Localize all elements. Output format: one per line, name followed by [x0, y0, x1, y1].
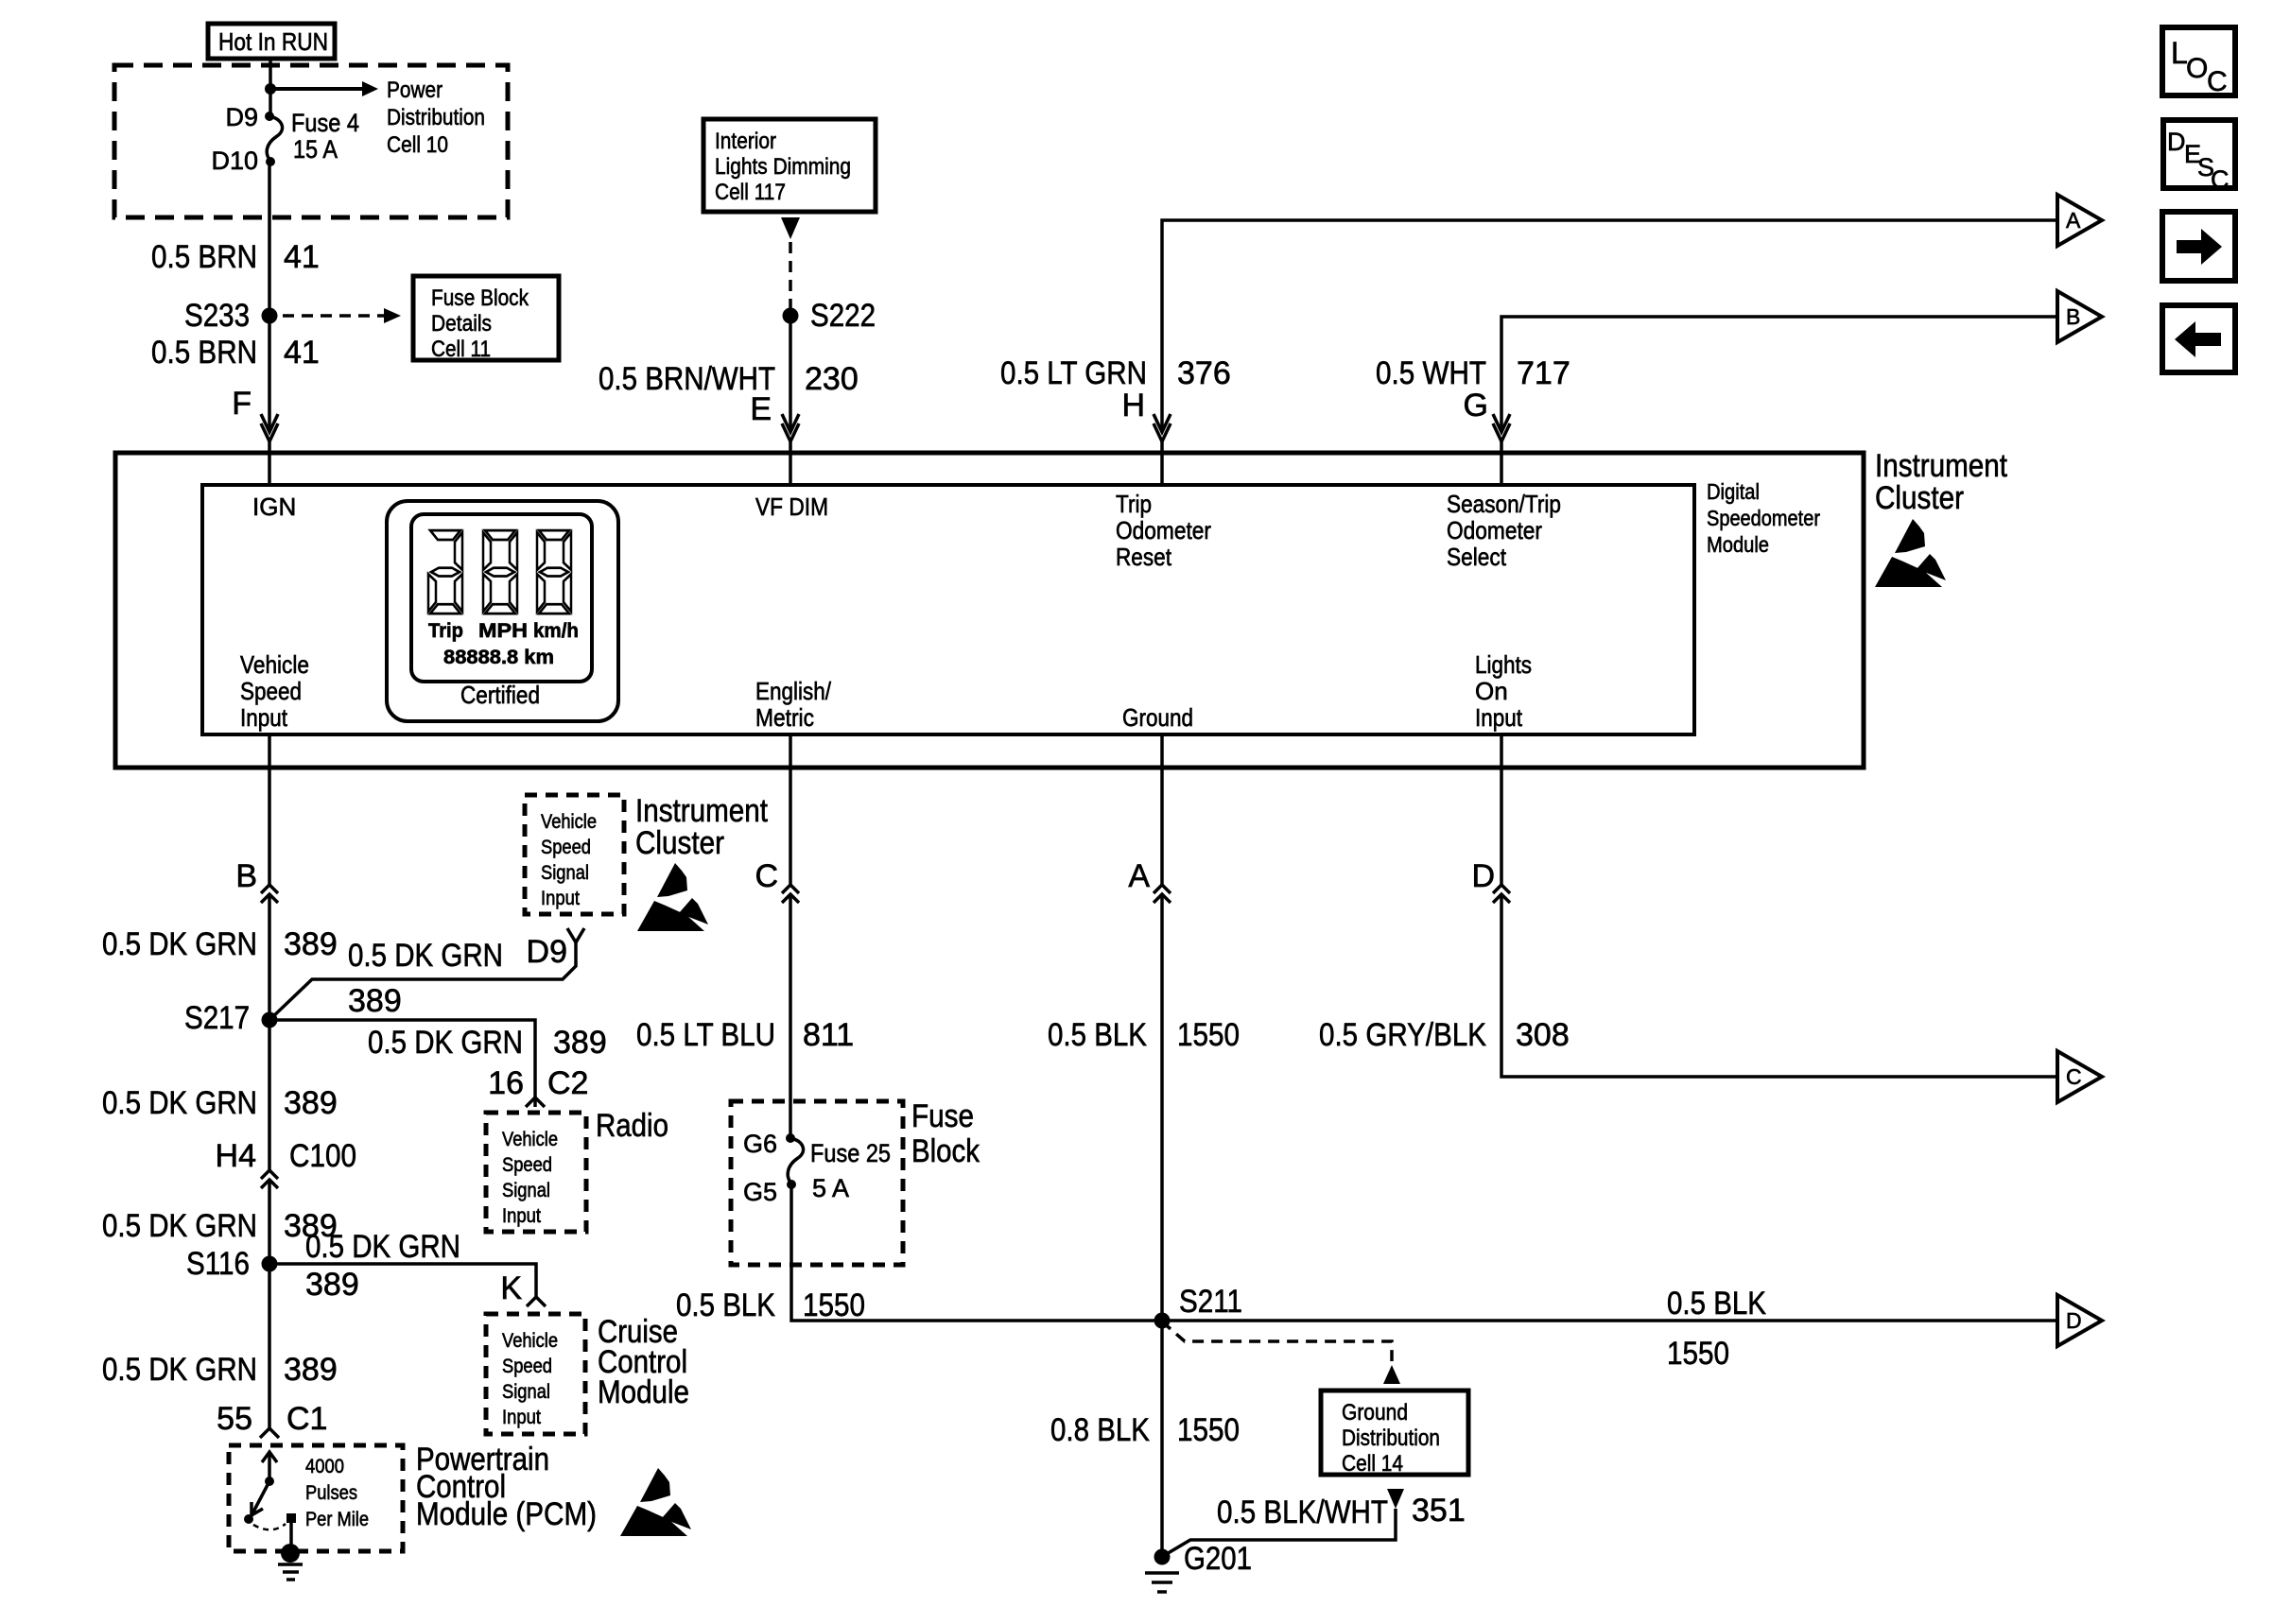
wire D10 to S233 [268, 162, 271, 316]
svg-text:Speed: Speed [541, 837, 591, 858]
svg-text:55: 55 [217, 1401, 252, 1437]
wire C100 to S116 [268, 1180, 271, 1264]
svg-text:E: E [750, 391, 772, 427]
svg-text:Reset: Reset [1116, 543, 1172, 571]
svg-text:Speedometer: Speedometer [1707, 506, 1820, 530]
fuse F25 terminal G6 [786, 1133, 795, 1143]
svg-text:D: D [2167, 128, 2186, 156]
PCM speed signal arrow [268, 1453, 271, 1481]
svg-text:0.5 DK GRN: 0.5 DK GRN [102, 1085, 257, 1121]
wire S211 to G201 [1160, 1321, 1164, 1557]
wire S217 to C100 [268, 1020, 271, 1170]
svg-text:0.5 DK GRN: 0.5 DK GRN [102, 926, 257, 962]
svg-text:H4: H4 [216, 1138, 256, 1174]
legend DESC box [2163, 120, 2235, 188]
wire from cluster pin English/Metric [789, 734, 792, 885]
svg-text:0.5 DK GRN: 0.5 DK GRN [348, 938, 503, 974]
svg-text:389: 389 [305, 1267, 359, 1303]
svg-text:S116: S116 [186, 1246, 250, 1282]
svg-text:km/h: km/h [533, 620, 579, 642]
off-page connector B [2057, 291, 2102, 342]
svg-text:0.5 BLK: 0.5 BLK [1048, 1017, 1147, 1053]
ESD symbol (dashed instrument cluster) [637, 863, 708, 931]
svg-text:Vehicle: Vehicle [240, 650, 309, 679]
fuse block (power distribution) dashed box [114, 65, 508, 217]
svg-text:Module: Module [598, 1374, 689, 1410]
splice S211 [1154, 1313, 1171, 1329]
wire to off-page A [1162, 220, 2057, 432]
svg-text:K: K [500, 1270, 522, 1306]
wire A to S211 [1160, 894, 1164, 1321]
svg-text:Cell 11: Cell 11 [431, 337, 491, 362]
svg-text:Cell 117: Cell 117 [715, 180, 786, 205]
svg-text:0.5 DK GRN: 0.5 DK GRN [102, 1352, 257, 1388]
svg-text:Signal: Signal [502, 1381, 550, 1403]
svg-text:0.5 BLK: 0.5 BLK [1667, 1286, 1766, 1322]
wire branch S217 to D9 [269, 942, 576, 1020]
wire G5 to S211 [791, 1184, 1162, 1321]
svg-text:Cell 14: Cell 14 [1342, 1451, 1403, 1477]
svg-text:0.5 GRY/BLK: 0.5 GRY/BLK [1319, 1017, 1486, 1053]
wire B to S217 [268, 894, 271, 1020]
svg-text:0.5 LT GRN: 0.5 LT GRN [1000, 355, 1147, 391]
wire S211 to off-page D [1162, 1319, 2057, 1322]
svg-text:811: 811 [803, 1017, 854, 1053]
svg-text:Input: Input [502, 1407, 541, 1428]
display digit 2 [483, 530, 517, 613]
splice S217 [262, 1012, 278, 1028]
digital speedometer module inner box [202, 485, 1694, 734]
svg-text:Select: Select [1447, 543, 1507, 571]
wire S222 to connector E [789, 316, 792, 432]
svg-text:389: 389 [284, 1085, 338, 1121]
svg-text:MPH: MPH [478, 620, 528, 642]
svg-text:Distribution: Distribution [387, 105, 485, 130]
svg-text:Module (PCM): Module (PCM) [416, 1496, 597, 1532]
svg-text:Digital: Digital [1707, 479, 1760, 504]
ESD symbol (PCM) [620, 1468, 691, 1536]
wire into cluster pin IGN [268, 441, 271, 485]
svg-text:Season/Trip: Season/Trip [1447, 490, 1561, 518]
svg-text:0.5 BRN/WHT: 0.5 BRN/WHT [599, 361, 775, 397]
wire branch S116 to cruise [269, 1264, 536, 1297]
svg-text:308: 308 [1516, 1017, 1570, 1053]
svg-text:Power: Power [387, 78, 442, 103]
svg-text:Input: Input [240, 703, 288, 732]
svg-text:389: 389 [553, 1025, 607, 1061]
svg-text:Vehicle: Vehicle [502, 1330, 558, 1352]
svg-text:0.5 DK GRN: 0.5 DK GRN [305, 1229, 460, 1265]
svg-text:1550: 1550 [1177, 1412, 1240, 1448]
svg-text:Input: Input [541, 888, 580, 909]
wire branch S217 to radio [269, 1020, 535, 1097]
wire S116 to PCM [268, 1264, 271, 1428]
svg-text:Cell 10: Cell 10 [387, 132, 448, 158]
svg-text:G6: G6 [743, 1130, 777, 1158]
wire to off-page B [1501, 317, 2057, 432]
wire from cluster pin Ground [1160, 734, 1164, 885]
svg-text:Cluster: Cluster [1875, 480, 1964, 516]
svg-text:Fuse: Fuse [911, 1098, 974, 1134]
svg-text:15 A: 15 A [293, 135, 338, 164]
display bezel [387, 501, 618, 721]
arrow from Ground Distribution [1387, 1489, 1404, 1509]
svg-text:Metric: Metric [755, 703, 814, 732]
svg-text:Lights Dimming: Lights Dimming [715, 154, 851, 180]
svg-text:389: 389 [284, 926, 338, 962]
svg-text:S211: S211 [1179, 1284, 1242, 1320]
wire into cluster pin VF DIM [789, 441, 792, 485]
svg-text:Hot In RUN: Hot In RUN [218, 27, 328, 56]
fuse F25 terminal G5 [787, 1180, 796, 1189]
connector C2 pin 16 [526, 1097, 545, 1107]
junction in fuse block [265, 83, 276, 95]
svg-text:G: G [1464, 388, 1488, 423]
dashed arrow to Fuse Block Details [283, 314, 384, 318]
node Ground Distribution [1321, 1391, 1468, 1475]
svg-text:389: 389 [284, 1352, 338, 1388]
wire C to fuse block [789, 894, 792, 1138]
svg-text:D: D [2066, 1308, 2082, 1333]
fuse F4 terminal D9 [265, 112, 274, 121]
svg-text:0.5 DK GRN: 0.5 DK GRN [102, 1208, 257, 1244]
svg-text:C1: C1 [286, 1401, 327, 1437]
svg-text:0.5 BLK: 0.5 BLK [676, 1287, 775, 1323]
svg-text:H: H [1121, 388, 1145, 423]
svg-text:0.5 DK GRN: 0.5 DK GRN [368, 1025, 523, 1061]
svg-text:C: C [755, 858, 778, 894]
instrument cluster outer box [115, 453, 1864, 768]
splice S233 [262, 308, 278, 324]
connector G into cluster [1493, 414, 1510, 441]
svg-text:4000: 4000 [305, 1456, 344, 1477]
svg-text:Vehicle: Vehicle [502, 1129, 558, 1150]
svg-text:Lights: Lights [1475, 650, 1532, 679]
wire Hot In RUN to fuse block [269, 59, 272, 116]
svg-text:Speed: Speed [502, 1154, 552, 1176]
splice S116 [262, 1256, 278, 1272]
svg-text:0.5 BRN: 0.5 BRN [151, 335, 257, 371]
dashed wire to S222 [789, 242, 792, 308]
svg-text:1550: 1550 [803, 1287, 865, 1323]
ground (PCM internal) [281, 1544, 300, 1563]
svg-text:Distribution: Distribution [1342, 1425, 1440, 1451]
wire from cluster pin Vehicle Speed Input [268, 734, 271, 885]
svg-text:Pulses: Pulses [305, 1482, 357, 1504]
svg-text:Vehicle: Vehicle [541, 811, 597, 833]
legend back arrow box [2162, 305, 2235, 372]
svg-text:Trip: Trip [428, 620, 463, 642]
svg-text:Input: Input [502, 1205, 541, 1227]
off-page connector D [2057, 1295, 2102, 1346]
svg-text:C2: C2 [547, 1065, 588, 1101]
svg-text:41: 41 [284, 335, 320, 371]
svg-text:0.5 BLK/WHT: 0.5 BLK/WHT [1217, 1494, 1388, 1530]
wire from cluster pin Lights On Input [1500, 734, 1503, 885]
svg-text:A: A [1128, 858, 1150, 894]
node Fuse Block dashed box [731, 1101, 903, 1265]
legend forward arrow box [2162, 212, 2235, 281]
svg-text:A: A [2066, 208, 2081, 233]
ESD symbol (instrument cluster) [1875, 519, 1946, 587]
svg-text:Certified: Certified [460, 681, 540, 709]
wire into cluster pin Season/Trip Odometer Select [1500, 441, 1503, 485]
svg-text:Module: Module [1707, 532, 1769, 557]
svg-text:376: 376 [1177, 355, 1231, 391]
off-page connector C [2057, 1051, 2102, 1102]
ground G201 [1154, 1549, 1171, 1565]
svg-text:S233: S233 [184, 298, 250, 334]
wire arrow to Power Distribution [270, 87, 362, 91]
connector D out of cluster [1493, 885, 1510, 903]
svg-text:717: 717 [1517, 355, 1570, 391]
svg-text:5 A: 5 A [812, 1174, 849, 1202]
connector A out of cluster [1154, 885, 1171, 903]
connector F into cluster [261, 414, 278, 441]
connector D9 (instrument cluster) [567, 928, 584, 942]
svg-text:Cluster: Cluster [635, 825, 724, 861]
wire 351 to G201 [1165, 1509, 1396, 1555]
svg-text:On: On [1475, 677, 1508, 705]
svg-text:Signal: Signal [502, 1180, 550, 1201]
svg-text:Speed: Speed [240, 677, 302, 705]
svg-text:Fuse 4: Fuse 4 [291, 109, 359, 137]
svg-text:Ground: Ground [1342, 1400, 1408, 1425]
svg-text:S222: S222 [810, 298, 876, 334]
wire into cluster pin Trip Odometer Reset [1160, 441, 1164, 485]
node Vehicle Speed Signal Input (radio) [486, 1113, 586, 1232]
svg-text:C: C [2066, 1064, 2082, 1089]
svg-text:D10: D10 [211, 147, 258, 175]
svg-text:0.5 WHT: 0.5 WHT [1376, 355, 1486, 391]
svg-text:English/: English/ [755, 677, 832, 705]
svg-text:B: B [2066, 304, 2080, 329]
svg-text:S217: S217 [184, 1000, 250, 1036]
svg-text:O: O [2186, 53, 2208, 84]
dashed link S211 to Ground Distribution [1162, 1322, 1392, 1361]
wire to PCM ground [289, 1523, 293, 1545]
svg-text:Speed: Speed [502, 1356, 552, 1377]
svg-text:VF DIM: VF DIM [755, 492, 828, 521]
svg-text:Block: Block [911, 1133, 980, 1169]
fuse F4 terminal D10 [266, 157, 275, 166]
svg-text:Per Mile: Per Mile [305, 1509, 369, 1530]
node Vehicle Speed Signal Input (cruise) [486, 1314, 585, 1434]
node Interior Lights Dimming [703, 119, 876, 212]
PCM switch contact [253, 1524, 286, 1529]
svg-text:C100: C100 [289, 1138, 356, 1174]
svg-text:Odometer: Odometer [1116, 516, 1211, 544]
svg-text:351: 351 [1412, 1493, 1466, 1529]
svg-text:C: C [2207, 66, 2228, 97]
PCM switch wiper [251, 1481, 269, 1517]
svg-text:Instrument: Instrument [1875, 448, 2007, 484]
svg-text:D: D [1471, 858, 1495, 894]
svg-text:Instrument: Instrument [635, 793, 768, 829]
display digit 3 [537, 530, 571, 613]
fuse F4 15A [267, 116, 282, 162]
svg-text:Fuse 25: Fuse 25 [810, 1139, 891, 1167]
arrow from Interior Lights Dimming [781, 217, 800, 239]
svg-text:D9: D9 [225, 103, 258, 131]
svg-text:B: B [235, 858, 257, 894]
svg-text:G5: G5 [743, 1178, 777, 1206]
connector H into cluster [1154, 414, 1171, 441]
fuse F25 5A [788, 1138, 803, 1184]
svg-text:1550: 1550 [1177, 1017, 1240, 1053]
svg-text:C: C [2211, 165, 2230, 194]
node Vehicle Speed Signal Input (instrument cluster) [525, 795, 624, 914]
svg-text:Fuse Block: Fuse Block [431, 285, 529, 311]
svg-text:41: 41 [284, 239, 320, 275]
svg-text:1550: 1550 [1667, 1336, 1729, 1372]
wire D to off-page C [1501, 894, 2057, 1077]
svg-text:0.5 BRN: 0.5 BRN [151, 239, 257, 275]
svg-text:0.5 LT BLU: 0.5 LT BLU [636, 1017, 775, 1053]
svg-text:G201: G201 [1184, 1541, 1252, 1577]
svg-text:0.8 BLK: 0.8 BLK [1050, 1412, 1150, 1448]
connector C out of cluster [782, 885, 799, 903]
legend LOC box [2162, 27, 2235, 95]
svg-text:Radio: Radio [596, 1108, 668, 1144]
svg-text:Trip: Trip [1116, 490, 1152, 518]
svg-text:Input: Input [1475, 703, 1523, 732]
svg-text:16: 16 [488, 1065, 524, 1101]
off-page connector A [2057, 195, 2102, 246]
svg-text:D9: D9 [527, 934, 567, 970]
connector K [527, 1297, 546, 1306]
svg-text:88888.8 km: 88888.8 km [443, 647, 554, 668]
svg-text:IGN: IGN [252, 492, 296, 521]
svg-text:Odometer: Odometer [1447, 516, 1542, 544]
connector B out of cluster [261, 885, 278, 903]
svg-text:F: F [232, 386, 252, 422]
wire S233 to connector F [268, 316, 271, 432]
svg-text:Interior: Interior [715, 129, 776, 154]
node Hot In RUN [208, 24, 335, 59]
svg-text:Signal: Signal [541, 862, 589, 884]
svg-text:389: 389 [348, 983, 402, 1019]
connector E into cluster [782, 414, 799, 441]
node PCM dashed box [229, 1445, 403, 1551]
svg-text:230: 230 [805, 361, 859, 397]
splice S222 [783, 308, 799, 324]
svg-text:Details: Details [431, 311, 492, 337]
svg-text:Ground: Ground [1122, 703, 1193, 732]
node Fuse Block Details [413, 276, 559, 360]
display digit 1 [428, 530, 462, 613]
